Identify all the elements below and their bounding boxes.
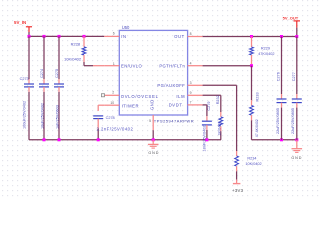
- svg-text:PG/AUXOFF: PG/AUXOFF: [157, 83, 185, 88]
- junction C276 gnd: [280, 138, 283, 141]
- svg-text:C279: C279: [207, 102, 211, 111]
- svg-text:ITIMER: ITIMER: [122, 104, 140, 109]
- svg-text:C273: C273: [20, 77, 29, 81]
- junction R228 tap: [83, 35, 86, 38]
- svg-text:R233: R233: [255, 92, 259, 101]
- capacitor C279: [206, 105, 208, 116]
- svg-text:OVLO/OVCSEL: OVLO/OVCSEL: [121, 94, 159, 99]
- ground symbol right: [296, 140, 298, 149]
- junction C275 tap: [58, 35, 61, 38]
- svg-text:GND: GND: [291, 156, 302, 160]
- pin 1 EN/UVLO: [104, 65, 119, 67]
- svg-text:R232: R232: [216, 95, 220, 104]
- svg-text:100uF/25V/0402: 100uF/25V/0402: [23, 101, 27, 129]
- svg-text:+3V3: +3V3: [232, 188, 243, 193]
- pin 4 PGTH/FLTn: [188, 65, 203, 67]
- junction C274 tap: [43, 35, 46, 38]
- junction C277 gnd: [295, 138, 298, 141]
- op-amp U50 TPS25947ARPWR load switch: [119, 30, 187, 115]
- svg-text:7: 7: [190, 100, 192, 104]
- pin 5 GND: [152, 115, 154, 130]
- resistor R229: [251, 37, 253, 48]
- pin 9 ILM: [188, 94, 203, 96]
- capacitor C273: [28, 36, 30, 79]
- junction C275 gnd: [58, 138, 61, 141]
- svg-text:5V_OUT: 5V_OUT: [283, 15, 299, 20]
- junction C276 tap: [280, 35, 283, 38]
- pin 6 IN: [104, 35, 119, 37]
- svg-text:2: 2: [112, 90, 114, 94]
- junction 5V_OUT at C277: [295, 35, 298, 38]
- svg-text:47.4K/0402: 47.4K/0402: [255, 119, 259, 137]
- capacitor C275: [58, 36, 60, 79]
- svg-text:ILM: ILM: [176, 94, 185, 99]
- svg-text:C278: C278: [106, 116, 115, 120]
- svg-text:5V_IN: 5V_IN: [14, 20, 26, 25]
- svg-text:1K/0402: 1K/0402: [217, 121, 221, 135]
- svg-text:22uF/25V/0805: 22uF/25V/0805: [291, 108, 295, 134]
- pin 8 OUT: [188, 36, 203, 38]
- junction C278 gnd: [97, 138, 100, 141]
- capacitor C277: [296, 37, 298, 95]
- junction C279 gnd: [205, 138, 208, 141]
- svg-text:9: 9: [190, 91, 192, 95]
- resistor R234: [236, 85, 238, 151]
- svg-text:10: 10: [110, 101, 114, 105]
- svg-text:4: 4: [190, 61, 192, 65]
- pin 2 OVLO/OVCSEL (no connect): [105, 94, 120, 96]
- svg-text:C276: C276: [277, 72, 281, 81]
- svg-text:C277: C277: [292, 72, 296, 81]
- wire ILM net: [203, 94, 221, 96]
- svg-text:5: 5: [149, 119, 151, 123]
- svg-text:C274: C274: [40, 69, 44, 78]
- svg-text:8: 8: [190, 32, 192, 36]
- svg-text:18nF/25V/0402: 18nF/25V/0402: [202, 126, 206, 152]
- wire left ground rail: [29, 139, 221, 141]
- resistor R232: [220, 95, 222, 112]
- junction 5V_IN at C273: [28, 35, 31, 38]
- svg-text:C275: C275: [55, 69, 59, 78]
- junction R229 tap: [250, 35, 253, 38]
- svg-text:GND: GND: [150, 99, 155, 110]
- wire output rail: [203, 36, 297, 38]
- svg-text:TPS25947ARPWR: TPS25947ARPWR: [154, 119, 194, 124]
- svg-text:1: 1: [113, 62, 115, 66]
- svg-text:3: 3: [190, 81, 192, 85]
- wire PGTH net: [203, 65, 252, 67]
- svg-text:22uF/25V/0805: 22uF/25V/0805: [276, 108, 280, 134]
- svg-text:DVDT: DVDT: [169, 103, 183, 108]
- resistor R233: [251, 66, 253, 101]
- svg-text:10K/0402: 10K/0402: [245, 162, 261, 166]
- svg-text:2.2nF/25V/0402: 2.2nF/25V/0402: [97, 127, 134, 132]
- svg-text:R228: R228: [71, 41, 81, 46]
- svg-text:U50: U50: [122, 25, 130, 30]
- pin 3 PG/AUXOFF: [188, 84, 203, 86]
- svg-text:1uF/25V/0603: 1uF/25V/0603: [55, 105, 59, 129]
- ground symbol under U50: [152, 140, 154, 145]
- capacitor C276: [281, 37, 283, 95]
- pin 7 DVDT: [188, 104, 203, 106]
- svg-text:R234: R234: [247, 156, 256, 160]
- svg-text:10uF/25V/0402: 10uF/25V/0402: [40, 103, 44, 129]
- svg-text:OUT: OUT: [174, 34, 185, 39]
- svg-text:R229: R229: [261, 46, 270, 50]
- svg-text:IN: IN: [121, 34, 126, 39]
- wire input rail: [29, 35, 104, 37]
- wire right ground rail: [252, 139, 297, 141]
- svg-text:6: 6: [113, 31, 115, 35]
- pin 10 ITIMER: [104, 104, 119, 106]
- power symbol +3V3: [236, 180, 238, 184]
- resistor R228: [83, 36, 85, 46]
- junction GND pin5: [152, 138, 155, 141]
- svg-text:47K/0402: 47K/0402: [258, 52, 274, 56]
- junction node PGTH: [250, 64, 253, 67]
- svg-text:PGTH/FLTn: PGTH/FLTn: [159, 63, 185, 68]
- capacitor C274: [43, 36, 45, 79]
- wire DVDT net: [203, 104, 207, 106]
- capacitor C278: [98, 104, 104, 106]
- wire PG net: [203, 84, 237, 86]
- junction C274 gnd: [43, 138, 46, 141]
- svg-text:EN/UVLO: EN/UVLO: [121, 64, 143, 69]
- svg-text:GND: GND: [148, 151, 159, 155]
- svg-text:10K/0402: 10K/0402: [64, 56, 82, 61]
